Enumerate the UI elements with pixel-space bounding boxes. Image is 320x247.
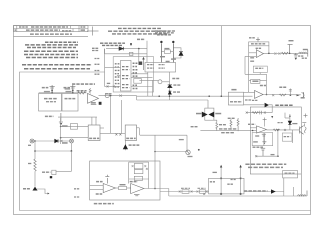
label C2 bbox=[64, 87, 71, 89]
label in box bbox=[210, 181, 215, 183]
output wire bbox=[263, 52, 307, 54]
output wire bbox=[144, 188, 169, 190]
bottom long wire bbox=[169, 195, 307, 197]
connector hook bbox=[305, 127, 307, 133]
label in sub box bbox=[255, 67, 263, 69]
diode CR5 bbox=[123, 141, 127, 151]
label below box bbox=[253, 146, 264, 148]
label C7 bbox=[45, 115, 54, 117]
capacitor C1 bbox=[50, 85, 55, 93]
wire stem bbox=[70, 143, 72, 151]
output wire bbox=[263, 94, 301, 96]
label gnd bbox=[253, 141, 258, 143]
input wires bbox=[250, 128, 256, 131]
transistor Q3 bbox=[158, 80, 162, 84]
label under U2B bbox=[252, 99, 258, 101]
label left of tach box b bbox=[74, 196, 80, 198]
feedback network loop bbox=[245, 53, 267, 93]
IC U10 label bbox=[89, 137, 99, 139]
small box R30 bbox=[70, 124, 77, 130]
node junction bbox=[34, 140, 36, 142]
wire bbox=[140, 134, 187, 136]
node junction bbox=[71, 150, 73, 152]
label J2 bbox=[301, 97, 305, 99]
capacitor C2 bbox=[70, 85, 75, 93]
node junction bbox=[154, 151, 156, 153]
resistor R31 bbox=[216, 122, 218, 130]
transistor Q5 bbox=[99, 102, 102, 105]
transistor Q6 bbox=[186, 150, 190, 154]
label value C2 bbox=[66, 91, 72, 93]
wire bbox=[283, 178, 285, 196]
text rows bbox=[245, 163, 286, 165]
test point bar bbox=[288, 45, 293, 54]
feedback resistor bbox=[89, 88, 91, 94]
gate box text bbox=[147, 62, 170, 69]
solder x bbox=[246, 112, 248, 114]
label row bbox=[219, 128, 237, 130]
solder x bbox=[255, 155, 257, 157]
pin tick bbox=[95, 117, 97, 125]
wire between ICs bbox=[111, 132, 126, 134]
node junction bbox=[60, 137, 62, 139]
test point TP3 bbox=[172, 41, 174, 63]
label under bbox=[96, 193, 103, 195]
IC left pin labels bbox=[115, 64, 120, 87]
solder x bbox=[107, 86, 115, 88]
test point circled X 2 bbox=[70, 139, 74, 143]
bus wire 2 bbox=[137, 99, 208, 101]
label R71 bbox=[278, 122, 284, 124]
diode VR1 bbox=[168, 91, 171, 94]
node junction bbox=[268, 53, 270, 55]
node label bbox=[137, 38, 145, 40]
solder x on bottom wire bbox=[203, 193, 205, 195]
note text above TP circles bbox=[155, 31, 175, 35]
TP5 label bbox=[231, 89, 236, 91]
resistor R12 label bbox=[77, 90, 87, 92]
resistor box chain1 bbox=[182, 190, 189, 194]
resistor R33 bbox=[237, 118, 239, 131]
label R40 bbox=[251, 43, 266, 45]
IC cluster enclosure bbox=[113, 57, 153, 92]
IC U11 label bbox=[126, 137, 136, 139]
solder x bbox=[284, 129, 286, 131]
ground stem bbox=[263, 133, 265, 146]
node junction bbox=[289, 115, 291, 117]
capacitor C20 bbox=[294, 53, 298, 60]
test point cross right bbox=[304, 114, 308, 118]
amp sub box bbox=[253, 66, 267, 72]
label fb2 bbox=[252, 80, 258, 82]
label TACH AMPLIFIER bbox=[94, 203, 114, 205]
tach amp box bbox=[90, 161, 160, 200]
resistor zigzag bbox=[252, 112, 258, 114]
solder x bbox=[197, 191, 208, 193]
wire bbox=[244, 104, 265, 106]
label Q1 bbox=[160, 56, 165, 58]
resistor R25 box bbox=[134, 79, 142, 84]
sel x marks bbox=[274, 53, 280, 55]
border frame inner bottom bbox=[20, 210, 311, 212]
input box bbox=[228, 92, 243, 105]
feedback vertical bbox=[268, 46, 270, 54]
wire bbox=[244, 91, 255, 93]
label left of R12 bbox=[65, 88, 71, 90]
wire bbox=[110, 96, 112, 134]
label row bbox=[244, 190, 268, 192]
border frame inner left bbox=[20, 72, 105, 211]
node junction bbox=[221, 95, 223, 97]
capacitor bars bbox=[260, 111, 262, 115]
wire bbox=[300, 174, 302, 196]
wire main left bus bbox=[39, 92, 87, 94]
resistor R12 zigzag bbox=[78, 92, 86, 94]
feedback wire bbox=[277, 130, 279, 156]
bottom chain wire bbox=[160, 191, 209, 193]
small box bbox=[283, 171, 298, 178]
diode CR6 bbox=[55, 139, 58, 142]
wire bbox=[103, 49, 105, 54]
diode CR2 bbox=[179, 52, 183, 56]
wire bbox=[35, 150, 71, 152]
node junction bbox=[252, 130, 254, 132]
node junction bbox=[208, 95, 210, 97]
solder x bbox=[272, 94, 274, 96]
label small box bbox=[285, 172, 295, 174]
wire bbox=[61, 125, 89, 127]
border frame outer bbox=[14, 26, 311, 215]
diode blob bbox=[50, 176, 52, 178]
op-amp IC4A bbox=[131, 184, 144, 194]
wire bbox=[214, 120, 217, 122]
wire bbox=[289, 114, 291, 130]
node junction bbox=[158, 95, 160, 97]
label below bbox=[62, 142, 68, 144]
capacitor C7 bbox=[59, 113, 63, 125]
gate box text right bbox=[159, 65, 166, 69]
diode CR15 bbox=[288, 121, 291, 125]
label value C1 bbox=[44, 91, 50, 93]
label above U2A bbox=[256, 47, 262, 49]
title block bbox=[14, 26, 89, 37]
label right bbox=[271, 154, 275, 156]
wire bbox=[34, 141, 36, 159]
balance pot box bbox=[52, 170, 56, 174]
resistor output zigzag bbox=[273, 129, 279, 131]
label left of tach box a bbox=[74, 188, 80, 190]
feedback box R2 bbox=[134, 176, 142, 180]
node junction bbox=[138, 48, 140, 50]
solder x bbox=[132, 165, 147, 167]
wire bbox=[257, 40, 259, 43]
label C20 bbox=[298, 55, 304, 57]
wire bbox=[248, 91, 250, 92]
wire bbox=[60, 118, 62, 144]
label above wire bbox=[107, 82, 110, 84]
label +15V bbox=[28, 144, 31, 146]
transistor Q10 bbox=[300, 126, 304, 135]
solder x bbox=[264, 112, 266, 114]
test point TP bbox=[130, 43, 132, 46]
solder x bbox=[119, 95, 122, 97]
label IC4B bbox=[96, 181, 103, 183]
label R50 bbox=[279, 86, 286, 88]
op-amp U2B bbox=[255, 91, 264, 99]
ground bbox=[91, 103, 97, 105]
label CR15 bbox=[292, 123, 297, 125]
terminal bbox=[306, 191, 308, 197]
wire op-amp output bbox=[99, 95, 137, 97]
paragraph text block bbox=[22, 42, 95, 84]
label pot bbox=[228, 117, 236, 119]
wire rows right of IC bbox=[131, 74, 158, 87]
resistor R78 box bbox=[115, 187, 130, 190]
top right +15V label bbox=[249, 37, 255, 39]
wire down from emitter bbox=[292, 130, 294, 143]
resistor box fb2 bbox=[251, 79, 260, 83]
diode blob bbox=[265, 103, 268, 107]
wire bbox=[34, 140, 69, 142]
arrow bbox=[48, 193, 50, 195]
wire bbox=[155, 151, 187, 153]
ground bars bbox=[262, 134, 266, 136]
op-amp U5B bbox=[88, 94, 99, 104]
wire bbox=[200, 130, 250, 132]
label in box 2 bbox=[231, 179, 237, 181]
labels left of diode D1 bbox=[92, 48, 99, 50]
test point cross bbox=[256, 37, 260, 41]
label above bar bbox=[289, 40, 294, 42]
wire from diode down bbox=[138, 49, 140, 62]
resistor R42 zigzag bbox=[281, 52, 288, 54]
feedback box R bbox=[134, 170, 143, 174]
wire bbox=[147, 72, 149, 96]
input labels2 bbox=[250, 60, 254, 62]
label TP bbox=[255, 135, 259, 137]
label BAL bbox=[42, 171, 50, 173]
node junction bbox=[72, 92, 74, 94]
diode CR2 loop bbox=[173, 48, 181, 58]
cap marks bbox=[289, 90, 292, 92]
wire bbox=[61, 137, 89, 139]
test point stem bbox=[302, 123, 306, 127]
label in input box bbox=[230, 101, 242, 103]
label actuator bbox=[275, 104, 293, 106]
label CR8 bbox=[196, 113, 202, 115]
feedback box C bbox=[134, 164, 143, 169]
node junction bbox=[51, 92, 53, 94]
label J1 bbox=[302, 57, 308, 59]
wire bbox=[121, 100, 123, 133]
label in right box bbox=[284, 136, 291, 138]
label 2.4V bbox=[172, 78, 179, 80]
wire bbox=[162, 81, 169, 83]
wire bbox=[34, 172, 36, 187]
wire pin stubs left bbox=[105, 67, 121, 86]
wire bbox=[285, 117, 290, 119]
ground under IC4A bbox=[134, 194, 140, 196]
feedback junction bbox=[266, 84, 268, 95]
diode D1 bbox=[119, 47, 123, 50]
terminal bar bbox=[307, 50, 309, 57]
wire bbox=[268, 105, 272, 113]
IC U4 box bbox=[121, 61, 132, 92]
label in box 3 bbox=[227, 183, 233, 185]
wire bbox=[256, 155, 278, 157]
label C1 bbox=[42, 87, 49, 89]
connector pin bbox=[303, 92, 305, 98]
wire bbox=[136, 96, 138, 100]
op-amp U3A bbox=[257, 126, 267, 133]
test point bbox=[105, 175, 109, 184]
arrow down bbox=[271, 116, 273, 118]
zener stack wire bbox=[169, 72, 171, 100]
label row2 bbox=[221, 132, 234, 134]
label module A bbox=[44, 98, 57, 100]
label R1 bbox=[28, 163, 31, 165]
label +2.4 bbox=[260, 85, 266, 87]
label adj bbox=[219, 124, 227, 126]
node junction bbox=[198, 149, 200, 151]
box power module B bbox=[62, 94, 78, 112]
wire right of U11 bbox=[137, 127, 140, 129]
high temp sensor text bbox=[100, 43, 125, 45]
wire bbox=[106, 48, 147, 50]
label chain1 bbox=[181, 187, 190, 189]
title block text bbox=[15, 27, 87, 34]
diode CR3 bbox=[168, 85, 172, 88]
test point TP2 bbox=[160, 41, 162, 63]
resistor R8 bbox=[161, 50, 173, 54]
wire pin 1 bbox=[220, 165, 222, 195]
label row bbox=[248, 123, 255, 125]
node junction bbox=[169, 95, 171, 97]
resistor R32 bbox=[230, 119, 232, 130]
node junction bbox=[289, 53, 291, 55]
ground bar bbox=[262, 142, 266, 145]
wire bbox=[152, 80, 154, 96]
feedback loop bbox=[129, 162, 149, 188]
diode blob bbox=[271, 190, 275, 194]
wire bbox=[104, 53, 147, 55]
wire component row bbox=[246, 112, 272, 114]
wire bbox=[264, 122, 266, 127]
node junction bbox=[60, 126, 62, 128]
connector bubble on wire bbox=[105, 94, 109, 98]
node junction bbox=[154, 188, 156, 190]
label R8 bbox=[164, 48, 169, 50]
pin labels right column bbox=[133, 63, 138, 88]
datum crosshair bbox=[87, 27, 99, 36]
op-amp IC4B bbox=[103, 184, 115, 193]
label Q6 bbox=[188, 156, 193, 158]
test point circled X bbox=[30, 139, 34, 143]
node junction bbox=[277, 129, 279, 131]
input wires bbox=[90, 186, 104, 190]
label CR5 bbox=[129, 144, 140, 146]
component box right bbox=[282, 133, 292, 141]
wire bbox=[289, 89, 291, 96]
resistor R1 bbox=[34, 159, 36, 171]
label chain2 bbox=[198, 187, 206, 189]
wire bbox=[154, 135, 156, 188]
+15V test point bbox=[263, 118, 267, 122]
IC U10 pins right bbox=[100, 128, 111, 133]
solder x2 bbox=[146, 168, 148, 170]
inductor L2 bbox=[298, 195, 306, 196]
inductor L1 bbox=[299, 52, 307, 53]
label above output bbox=[105, 93, 112, 95]
component marks bbox=[115, 133, 121, 135]
wire bbox=[168, 189, 170, 197]
wire bbox=[91, 117, 93, 125]
IC U10 bbox=[88, 125, 100, 141]
connector box J3 bbox=[209, 178, 244, 194]
wire bbox=[138, 128, 140, 135]
IC U11 bbox=[125, 125, 136, 141]
label L1 bbox=[303, 49, 308, 51]
label TP bbox=[191, 126, 199, 128]
wire bbox=[70, 151, 72, 171]
node junction bbox=[266, 94, 268, 96]
wire bbox=[259, 73, 261, 75]
label CR9 bbox=[215, 113, 221, 115]
input wires bbox=[245, 46, 256, 75]
arrow bbox=[297, 94, 300, 96]
solder x bbox=[61, 140, 63, 142]
diode CR8 bbox=[202, 112, 207, 117]
label R30 bbox=[62, 125, 68, 127]
op-amp U2A bbox=[256, 50, 263, 58]
actuator box bbox=[250, 107, 301, 174]
wire under boxes bbox=[58, 116, 97, 118]
input labels bbox=[250, 57, 254, 59]
IC U4 label bbox=[139, 62, 143, 65]
power arrow bbox=[142, 57, 145, 70]
resistor box chain2 bbox=[200, 190, 206, 194]
label beside vertical bbox=[179, 139, 184, 141]
IC U4 pin text rows bbox=[122, 67, 130, 88]
label above box bbox=[213, 171, 217, 173]
box power module A bbox=[39, 94, 62, 112]
resistor R40 box bbox=[249, 42, 269, 46]
label bbox=[173, 91, 180, 93]
clamp diode loop bbox=[205, 100, 214, 120]
wire pin 2 bbox=[239, 165, 241, 195]
label LM336 bbox=[173, 84, 181, 86]
label CR1 bbox=[23, 188, 31, 190]
node junction bbox=[277, 155, 279, 157]
wire bbox=[293, 187, 295, 196]
diode CR9 bbox=[209, 112, 214, 117]
node junction bbox=[34, 150, 36, 152]
label R78 bbox=[120, 184, 126, 186]
bottom chain right bbox=[244, 191, 284, 193]
output wire bbox=[266, 129, 299, 131]
wire vertical feed bbox=[104, 49, 106, 87]
label Q2 bbox=[171, 58, 176, 60]
label U5B bbox=[91, 102, 96, 104]
solder x bbox=[179, 191, 193, 193]
wire bbox=[56, 170, 71, 172]
connector J2 bbox=[302, 93, 305, 98]
note text top center bbox=[108, 28, 170, 34]
component sub box bbox=[252, 133, 273, 146]
signal name labels bbox=[95, 59, 101, 75]
text rows2 bbox=[248, 166, 283, 168]
label module A2 bbox=[46, 101, 56, 103]
